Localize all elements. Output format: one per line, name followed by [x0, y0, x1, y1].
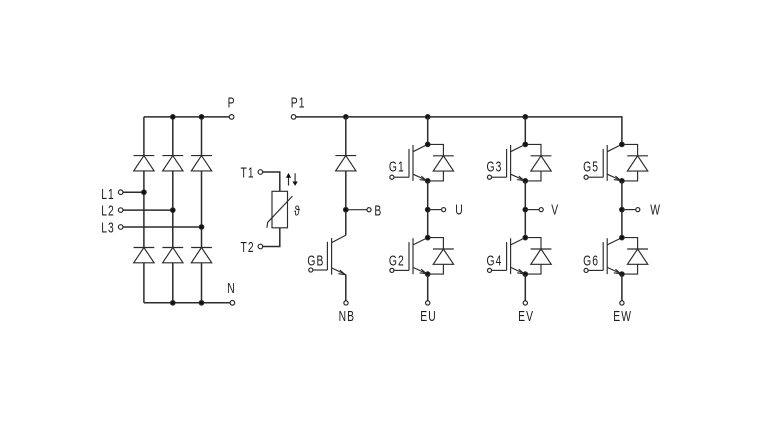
svg-text:T1: T1: [241, 164, 255, 182]
svg-text:U: U: [455, 200, 464, 218]
svg-text:G1: G1: [389, 158, 405, 176]
svg-text:GB: GB: [307, 251, 324, 269]
svg-text:P: P: [228, 93, 236, 111]
svg-text:EV: EV: [518, 307, 534, 325]
svg-text:T2: T2: [241, 238, 255, 256]
svg-text:L1: L1: [101, 185, 115, 203]
svg-text:G4: G4: [487, 251, 503, 269]
svg-text:V: V: [551, 200, 559, 218]
svg-text:EW: EW: [613, 307, 632, 325]
svg-text:NB: NB: [339, 307, 356, 325]
svg-text:N: N: [227, 279, 236, 297]
svg-text:ϑ: ϑ: [294, 203, 300, 218]
svg-text:B: B: [374, 202, 382, 220]
svg-text:EU: EU: [420, 307, 437, 325]
svg-text:P1: P1: [291, 93, 306, 111]
svg-text:W: W: [650, 200, 661, 218]
svg-text:L3: L3: [101, 218, 115, 236]
svg-text:L2: L2: [101, 202, 115, 220]
svg-text:G6: G6: [583, 251, 599, 269]
svg-text:G2: G2: [389, 251, 405, 269]
svg-text:G3: G3: [487, 158, 503, 176]
svg-text:G5: G5: [583, 158, 599, 176]
